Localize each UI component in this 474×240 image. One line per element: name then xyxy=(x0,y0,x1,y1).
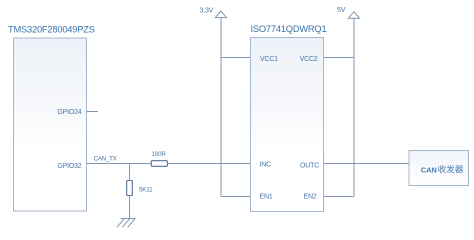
svg-text:GPIO32: GPIO32 xyxy=(57,163,81,170)
svg-text:CAN_TX: CAN_TX xyxy=(94,155,118,162)
svg-text:100R: 100R xyxy=(152,151,167,158)
wire: 5V rail xyxy=(353,18,355,196)
resistor R2 5K11 body xyxy=(127,181,133,196)
wire: 3.3V rail to VCC1 xyxy=(221,57,251,59)
wire: VCC2 to 5V rail xyxy=(324,57,355,59)
wire CAN_TX: GPIO32 to junction xyxy=(87,163,130,165)
svg-text:VCC1: VCC1 xyxy=(260,56,278,63)
svg-text:TMS320F280049PZS: TMS320F280049PZS xyxy=(8,25,95,35)
svg-text:3.3V: 3.3V xyxy=(200,8,214,15)
resistor R1 100R body xyxy=(151,161,167,167)
power symbol 5V arrow xyxy=(348,12,359,19)
svg-text:5K11: 5K11 xyxy=(139,186,153,193)
wire: 3.3V rail xyxy=(220,18,222,197)
svg-text:EN2: EN2 xyxy=(303,193,316,200)
svg-text:VCC2: VCC2 xyxy=(300,56,318,63)
wire: EN2 to 5V rail xyxy=(324,196,355,198)
svg-text:INC: INC xyxy=(260,162,272,169)
svg-text:CAN: CAN xyxy=(421,165,437,174)
wire: junction down to resistor R2 xyxy=(129,164,131,182)
wire: 3.3V rail to EN1 xyxy=(221,196,251,198)
wire: OUTC to CAN transceiver xyxy=(324,163,410,165)
block CAN transceiver body xyxy=(409,151,469,186)
MCU U1 TMS320F280049PZS body xyxy=(14,38,87,211)
svg-text:5V: 5V xyxy=(337,7,346,14)
wire: R1 to INC xyxy=(167,163,250,165)
svg-text:ISO7741QDWRQ1: ISO7741QDWRQ1 xyxy=(251,24,327,34)
wire: junction to resistor R1 xyxy=(130,163,152,165)
svg-text:OUTC: OUTC xyxy=(300,163,319,170)
wire: R2 to ground xyxy=(129,196,131,220)
isolator U2 ISO7741QDWRQ1 body xyxy=(251,38,324,212)
power symbol 3.3V arrow xyxy=(215,11,226,18)
pin GPIO24 stub wire xyxy=(87,111,99,113)
ground symbol xyxy=(117,219,136,228)
svg-text:EN1: EN1 xyxy=(260,193,273,200)
svg-text:GPIO24: GPIO24 xyxy=(57,109,81,116)
